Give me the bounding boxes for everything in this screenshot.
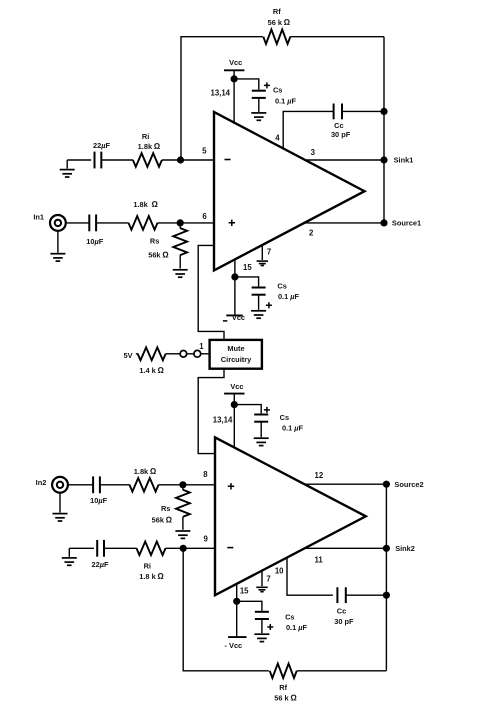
pin label 9	[204, 535, 209, 544]
net label Sink2	[395, 544, 415, 553]
svg-text:56 k Ω: 56 k Ω	[274, 693, 297, 703]
svg-text:15: 15	[243, 263, 252, 272]
wire 22uF to Ri ch2	[104, 547, 137, 549]
wire 10uF to 1.8k ch1	[96, 222, 128, 224]
svg-text:2: 2	[309, 229, 314, 238]
svg-text:5V: 5V	[123, 351, 132, 360]
pin label 10 ch2	[275, 567, 284, 576]
svg-text:Rs: Rs	[161, 504, 170, 513]
wire 10uF to 1.8k ch2	[100, 484, 130, 486]
ground 22uF input ch1	[60, 160, 75, 177]
net label In1	[33, 213, 44, 222]
svg-text:Cs: Cs	[285, 612, 294, 621]
op-amp1 inverting mark	[225, 159, 231, 161]
svg-text:1.8k Ω: 1.8k Ω	[133, 199, 158, 209]
pin label 5	[202, 147, 207, 156]
jumper circle 1 (mute)	[180, 351, 187, 358]
net label Source2	[394, 480, 423, 489]
junction pin15 node ch1	[231, 273, 238, 280]
wire Rf2 to right rail	[297, 670, 387, 672]
wire 22uF to Ri ch1	[101, 159, 133, 161]
pin label 12	[315, 471, 324, 480]
svg-text:9: 9	[204, 535, 209, 544]
ground In1	[50, 231, 65, 261]
jumper circle 2 (mute)	[194, 350, 201, 357]
pin label 13,14 ch2	[213, 416, 233, 425]
wire pin12 to Source2	[304, 483, 386, 485]
svg-text:11: 11	[314, 555, 323, 564]
svg-text:56 k Ω: 56 k Ω	[268, 17, 291, 27]
svg-text:10: 10	[275, 567, 284, 576]
svg-text:1.8k Ω: 1.8k Ω	[134, 466, 157, 476]
connector In2 jack	[52, 477, 68, 493]
pin7 stub and ground ch2	[256, 570, 267, 592]
op-amp2 non-inverting mark	[228, 483, 234, 489]
wire ground to 22uF ch1	[67, 159, 91, 161]
pin15 stub ch2	[236, 583, 238, 601]
svg-text:56k Ω: 56k Ω	[148, 250, 169, 260]
capacitor 22uF ch2	[91, 540, 109, 569]
wire pin11 to Sink2	[305, 547, 386, 549]
capacitor Cc 30pF ch1	[331, 104, 351, 139]
svg-text:30 pF: 30 pF	[334, 617, 354, 626]
capacitor Cs 0.1uF Vcc bypass ch2	[234, 405, 303, 438]
svg-text:0.1 µF: 0.1 µF	[278, 292, 300, 301]
svg-text:22µF: 22µF	[91, 560, 109, 569]
wire In2 to 10uF	[69, 484, 94, 486]
svg-text:Vcc: Vcc	[230, 382, 243, 391]
wire In1 to 10uF	[66, 222, 89, 224]
wire jumper to mute box	[201, 353, 210, 355]
junction pin8 node	[179, 481, 186, 488]
pin label 15 ch1	[243, 263, 252, 272]
op-amp1 non-inverting mark	[229, 220, 235, 226]
svg-text:Cs: Cs	[277, 282, 286, 291]
junction pin15 node ch2	[233, 598, 240, 605]
net label Sink1	[394, 156, 414, 165]
svg-text:10µF: 10µF	[90, 496, 108, 505]
junction pin6 node	[177, 219, 184, 226]
wire 1.8k to op-amp pin8	[159, 484, 216, 486]
svg-text:13,14: 13,14	[210, 89, 230, 98]
ground In2	[53, 493, 68, 521]
junction Source2	[383, 481, 390, 488]
svg-text:Mute: Mute	[227, 344, 244, 353]
svg-text:Vcc: Vcc	[232, 313, 245, 322]
wire Ri to op-amp pin9	[166, 547, 216, 549]
capacitor Cc 30pF ch2	[334, 587, 354, 626]
resistor Rs 56k (ch2)	[152, 485, 190, 530]
svg-text:5: 5	[202, 147, 207, 156]
svg-text:6: 6	[202, 212, 207, 221]
svg-text:Source2: Source2	[394, 480, 423, 489]
junction Vcc node ch1	[231, 75, 238, 82]
svg-text:30 pF: 30 pF	[331, 130, 351, 139]
pin label 11	[314, 555, 323, 564]
pin label 8	[203, 470, 208, 479]
pin label 4	[275, 133, 280, 142]
capacitor Cs 0.1uF -Vcc bypass ch2	[237, 601, 308, 633]
pin7 stub and ground ch1	[257, 246, 268, 265]
svg-text:Rf: Rf	[273, 7, 281, 16]
svg-text:Sink2: Sink2	[395, 544, 415, 553]
svg-text:Sink1: Sink1	[394, 156, 414, 165]
junction Cc rail ch1	[380, 108, 387, 115]
svg-text:Cs: Cs	[273, 86, 282, 95]
junction Source1	[380, 219, 387, 226]
svg-text:1.4 k Ω: 1.4 k Ω	[139, 365, 164, 375]
capacitor 10uF ch1	[86, 215, 104, 247]
power Vcc ch1	[224, 58, 244, 124]
wire Rf1 left rail (pin5 node up to top)	[181, 37, 263, 160]
op-amp2 inverting mark	[227, 547, 233, 549]
resistor Rs 56k (ch1)	[148, 223, 187, 269]
capacitor Cs 0.1uF -Vcc bypass ch1	[235, 277, 300, 310]
power -Vcc ch2	[225, 601, 247, 650]
pin label 15 ch2	[240, 587, 249, 596]
junction pin5/feedback node	[177, 156, 184, 163]
net label 5V	[123, 351, 132, 360]
pin label 1 mute	[199, 342, 204, 351]
svg-text:4: 4	[275, 133, 280, 142]
connector In1 jack	[50, 215, 66, 231]
svg-text:15: 15	[240, 587, 249, 596]
svg-text:0.1 µF: 0.1 µF	[282, 424, 304, 433]
wire pin10 to Cc ch2	[287, 557, 333, 595]
wire Cc to rail ch2	[346, 594, 387, 596]
resistor Rf 56k (ch2)	[270, 664, 298, 703]
svg-text:0.1 µF: 0.1 µF	[286, 623, 308, 632]
svg-text:3: 3	[311, 148, 316, 157]
svg-text:22µF: 22µF	[93, 141, 111, 150]
wire Rf2 left rail	[183, 548, 269, 671]
net label In2	[36, 478, 47, 487]
svg-text:13,14: 13,14	[213, 416, 233, 425]
svg-text:8: 8	[203, 470, 208, 479]
svg-text:0.1 µF: 0.1 µF	[275, 96, 297, 105]
svg-text:1.8k Ω: 1.8k Ω	[138, 141, 161, 151]
ground Rs ch1	[173, 270, 188, 277]
wire pin3 to Sink1	[304, 159, 384, 161]
power Vcc ch2	[224, 382, 244, 448]
wire mute box to op-amp2 mute pin	[198, 369, 224, 454]
svg-text:10µF: 10µF	[86, 237, 104, 246]
wire pin4 to Cc ch1	[283, 111, 333, 148]
resistor 1.8k (ch1 + input)	[129, 199, 159, 230]
svg-text:12: 12	[315, 471, 324, 480]
pin label 7 ch1	[267, 248, 271, 257]
resistor 1.4k mute	[136, 347, 180, 375]
svg-text:Cc: Cc	[334, 121, 343, 130]
ground Cs2	[254, 438, 269, 445]
op-amp U1 (ch1)	[214, 112, 365, 270]
svg-text:Ri: Ri	[144, 562, 151, 571]
wire Cc to rail ch1	[342, 110, 384, 112]
capacitor Cs 0.1uF Vcc bypass ch1	[234, 79, 296, 112]
junction Sink1	[380, 156, 387, 163]
pin15 stub ch1	[234, 259, 236, 277]
svg-text:7: 7	[267, 248, 271, 257]
wire 1.8k to op-amp pin6	[158, 222, 215, 224]
pin label 6	[202, 212, 207, 221]
net label Source1	[392, 219, 421, 228]
svg-text:In2: In2	[36, 478, 47, 487]
resistor Rf 56k (ch1)	[263, 7, 290, 44]
op-amp U2 (ch2)	[215, 437, 366, 595]
junction Sink2	[383, 545, 390, 552]
svg-text:56k Ω: 56k Ω	[152, 514, 173, 524]
wire Ri to op-amp pin5	[162, 159, 214, 161]
wire op-amp1 mute pin to mute box	[198, 245, 224, 340]
junction Vcc node ch2	[231, 401, 238, 408]
resistor Ri 1.8k (ch1)	[133, 132, 162, 167]
wire right output rail ch2	[385, 484, 387, 671]
junction Cc rail ch2	[383, 592, 390, 599]
pin label 7 ch2	[266, 574, 270, 583]
ground Cs2b	[254, 634, 269, 641]
svg-text:1.8 k Ω: 1.8 k Ω	[139, 571, 164, 581]
ground Cs1b	[251, 311, 266, 318]
wire right output rail ch1	[383, 37, 385, 223]
svg-text:Vcc: Vcc	[229, 58, 242, 67]
ground Rs ch2	[175, 531, 190, 538]
svg-text:1: 1	[199, 342, 204, 351]
wire Rf1 to right rail	[290, 36, 384, 38]
capacitor 10uF ch2	[90, 476, 108, 505]
pin label 2	[309, 229, 314, 238]
pin label 3	[311, 148, 316, 157]
ground 22uF input ch2	[62, 548, 77, 565]
svg-text:Rs: Rs	[150, 236, 159, 245]
svg-text:Rf: Rf	[279, 683, 287, 692]
resistor 1.8k (ch2 + input)	[130, 466, 159, 492]
svg-text:Circuitry: Circuitry	[221, 355, 252, 364]
junction pin9/feedback node	[180, 545, 187, 552]
svg-text:In1: In1	[33, 213, 44, 222]
wire pin2 to Source1	[303, 222, 384, 224]
wire ground to 22uF ch2	[69, 547, 94, 549]
svg-text:7: 7	[266, 574, 270, 583]
ground Cs1	[251, 113, 266, 120]
capacitor 22uF ch1	[93, 141, 111, 168]
wire between jumper circles	[187, 353, 194, 355]
mute circuitry box U2	[210, 340, 262, 369]
svg-text:Cc: Cc	[337, 607, 346, 616]
svg-text:Ri: Ri	[142, 132, 149, 141]
resistor Ri 1.8k (ch2)	[137, 542, 166, 581]
svg-text:Cs: Cs	[280, 413, 289, 422]
svg-text:- Vcc: - Vcc	[225, 641, 243, 650]
power -Vcc ch1	[223, 277, 245, 322]
svg-text:Source1: Source1	[392, 219, 421, 228]
pin label 13,14 ch1	[210, 89, 230, 98]
